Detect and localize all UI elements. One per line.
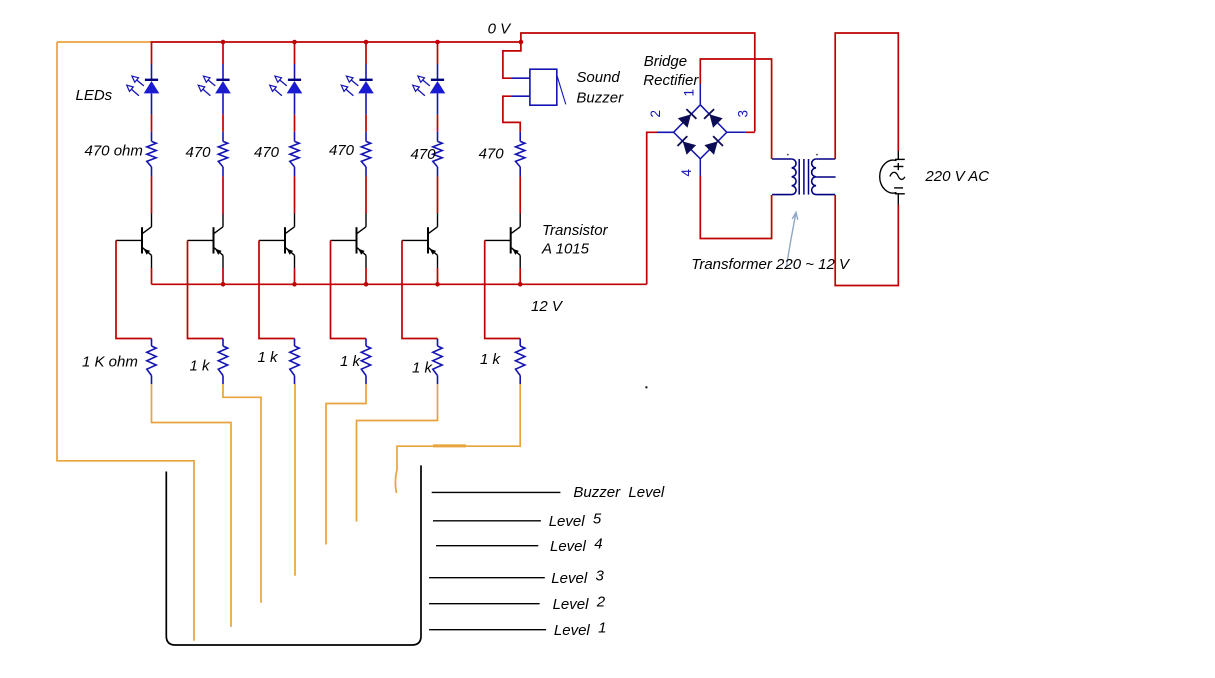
label 1 k R11 [412,360,434,377]
wire LED5 cathode [437,93,439,131]
wire LED2 anode red [222,42,224,64]
resistor R3 470 lead top [294,132,296,142]
wire probe level5 from R11 [357,384,438,522]
wire bridge node1 to transformer [700,59,771,159]
resistor R6 470 lead top [519,132,521,142]
label 1 k R9 [258,349,280,366]
svg-text:470 ohm: 470 ohm [85,143,143,160]
wire LED5 anode red [437,42,439,64]
wire Q2 base to R8 [188,240,224,338]
svg-text:1 k: 1 k [480,351,502,368]
label pin 1 [682,89,697,97]
resistor R8 1k [218,346,227,376]
svg-text:3: 3 [736,110,751,118]
transformer T1 220~12V [772,154,836,195]
resistor R2 470 lead top [222,132,224,142]
LED D4 [358,80,374,94]
level line Level level line [433,520,541,522]
resistor R5 470 lead bottom [437,167,439,177]
svg-text:Bridge: Bridge [644,53,687,70]
wire LED4 cathode [365,93,367,131]
wire transformer to AC source top [835,33,898,159]
wire AC source to transformer bottom [835,195,898,286]
svg-text:470: 470 [329,142,355,159]
label 1 k R12 [480,351,502,368]
svg-text:1 k: 1 k [412,360,434,377]
wire Q6 base to R12 [485,240,521,338]
transistor Q3 A1015 [259,214,295,269]
svg-text:470: 470 [254,144,280,161]
LED D3 emission arrows [270,76,287,96]
junction 12V rail col5 [435,282,440,287]
resistor R5 470 ohm [433,141,442,167]
LED D1 [144,80,160,94]
svg-text:470: 470 [186,144,212,161]
wire 12V to bridge node 2 [647,132,674,284]
resistor R1 470 lead top [151,132,153,142]
resistor R10 1k lead top [365,339,367,347]
label 220 V AC [924,168,989,185]
label LEDs [76,87,113,104]
svg-text:220 V AC: 220 V AC [924,168,989,185]
svg-text:Level 1: Level 1 [554,620,607,640]
svg-text:Sound: Sound [576,69,620,86]
svg-text:Transformer 220 ~ 12 V: Transformer 220 ~ 12 V [691,256,851,273]
wire Q2 emitter to 12V rail [222,268,224,284]
wire Q3 base to R9 [259,240,295,338]
LED D4 emission arrows [341,76,358,96]
resistor R11 1k [433,346,442,376]
svg-text:470: 470 [411,146,437,163]
resistor R1 470 ohm [147,141,156,167]
label 0V [488,21,513,38]
LED D5 emission arrows [413,76,430,96]
resistor R4 470 ohm [361,141,370,167]
resistor R7 1k lead top [151,339,153,347]
label 1 k R8 [190,358,212,375]
resistor R12 1k [516,346,525,376]
svg-text:A 1015: A 1015 [541,241,590,258]
transistor Q5 A1015 [402,214,438,269]
label Buzzer Level [573,484,665,501]
buzzer BZ1 [530,69,566,105]
label 470 R2 [186,144,212,161]
resistor R6 470 lead bottom [519,167,521,177]
svg-text:1 k: 1 k [340,353,362,370]
bridge pin node 1 [699,84,701,105]
junction 12V rail col6 [518,282,523,287]
wire R5 to Q5 collector [437,176,439,213]
label Transistor A 1015 [541,222,609,258]
resistor R3 470 lead bottom [294,167,296,177]
wire buzzer bottom lead [503,96,530,132]
wire probe level2 from R8 [223,384,261,603]
svg-text:Transistor: Transistor [542,222,609,239]
resistor R9 1k lead top [294,339,296,347]
label Level level line [549,511,602,531]
transistor Q1 A1015 [116,214,152,269]
label pin 4 [679,169,694,177]
transistor Q6 A1015 [485,214,521,269]
level line Level level line [429,629,546,631]
svg-text:Rectifier: Rectifier [643,72,699,89]
svg-text:Level 4: Level 4 [550,536,603,556]
LED D4 lead [365,64,367,79]
LED D1 lead [151,64,153,79]
LED D2 lead [222,64,224,79]
svg-text:1: 1 [682,89,697,97]
resistor R5 470 lead top [437,132,439,142]
svg-text:Buzzer Level: Buzzer Level [573,484,665,501]
wire R2 to Q2 collector [222,176,224,213]
LED D5 lead [437,64,439,79]
level line Buzzer Level [432,491,561,493]
LED D5 [430,80,446,94]
resistor R12 1k lead top [519,339,521,347]
wire R4 to Q4 collector [365,176,367,213]
label Sound Buzzer [576,69,624,107]
wire LED2 cathode [222,93,224,131]
wire LED3 cathode [294,93,296,131]
transistor Q4 A1015 [331,214,367,269]
svg-text:1 k: 1 k [258,349,280,366]
bridge diode D7 (3 to 1) [704,109,723,128]
resistor R8 1k lead bottom [222,376,224,385]
label 470 R5 [411,146,437,163]
label 470 ohm R1 [85,143,143,160]
svg-text:Level 5: Level 5 [549,511,602,531]
bridge diode D8 (4 to 2) [678,136,697,155]
label 470 R4 [329,142,355,159]
label 1 K ohm R7 [82,354,138,371]
label arrow to transformer [787,213,798,267]
level line Level level line [429,577,545,579]
resistor R7 1k lead bottom [151,376,153,385]
resistor R11 1k lead top [437,339,439,347]
svg-text:LEDs: LEDs [76,87,113,104]
resistor R10 1k lead bottom [365,376,367,385]
label 470 R3 [254,144,280,161]
LED D2 emission arrows [198,76,215,96]
level line Level level line [429,603,539,605]
svg-text:12 V: 12 V [531,298,564,315]
resistor R4 470 lead top [365,132,367,142]
wire Q1 base to R7 [116,240,152,338]
junction 12V rail col2 [221,282,226,287]
label pin 3 [736,110,751,118]
wire buzzer top lead [503,42,530,78]
wire Q4 emitter to 12V rail [365,268,367,284]
label Level level line [551,568,604,588]
junction 0V node [519,40,524,45]
wire Q4 base to R10 [331,240,367,338]
label Level level line [554,620,607,640]
wire R3 to Q3 collector [294,176,296,213]
svg-text:Level 2: Level 2 [553,594,606,614]
wire probe buzzer from R12 [395,384,520,493]
resistor R9 1k [290,346,299,376]
svg-text:Level 3: Level 3 [551,568,604,588]
wire LED3 anode red [294,42,296,64]
svg-text:1 k: 1 k [190,358,212,375]
svg-text:Buzzer: Buzzer [576,90,624,107]
label Transformer 220 ~ 12 V [691,256,851,273]
wire 0V extension to bridge [521,33,755,132]
label Bridge Rectifier [643,53,699,89]
transistor Q2 A1015 [188,214,224,269]
resistor R11 1k lead bottom [437,376,439,385]
junction 12V rail col4 [364,282,369,287]
resistor R7 1k [147,346,156,376]
LED D1 emission arrows [127,76,144,96]
wire Q5 emitter to 12V rail [437,268,439,284]
resistor R3 470 ohm [290,141,299,167]
wire Q1 emitter to 12V rail [151,268,153,284]
wire LED1 anode red [151,42,153,64]
label 1 k R10 [340,353,362,370]
bridge diode D9 (4 to 3) [704,136,723,155]
junction 0V rail col3 [292,40,297,45]
bridge pin node 4 [699,159,701,176]
level line Level level line [436,545,538,547]
tank [166,465,421,645]
bridge diamond [674,105,727,159]
junction 12V rail col3 [292,282,297,287]
wire 12V rail [152,283,647,285]
wire bridge node4 to transformer [700,176,771,239]
label Level level line [553,594,606,614]
resistor R10 1k [361,346,370,376]
bridge diode D6 (2 to 1) [678,109,697,128]
resistor R1 470 lead bottom [151,167,153,177]
svg-text:470: 470 [479,146,505,163]
wire R6 to Q6 collector [519,176,521,213]
wire Q6 emitter to 12V rail [519,268,521,284]
speck [645,386,647,388]
wire probe level3 from R9 [294,384,296,576]
resistor R8 1k lead top [222,339,224,347]
wire probe level4 from R10 [326,384,366,545]
junction 0V rail col2 [221,40,226,45]
resistor R2 470 lead bottom [222,167,224,177]
bridge pin node 3 [727,131,755,133]
label pin 2 [648,110,663,118]
LED D3 lead [294,64,296,79]
resistor R9 1k lead bottom [294,376,296,385]
wire 0V rail red [151,41,521,43]
wire probe level1 from R7 [152,384,232,627]
wire probe common 0V [57,42,194,641]
resistor R4 470 lead bottom [365,167,367,177]
LED D3 [287,80,303,94]
LED D2 [215,80,231,94]
wire R1 to Q1 collector [151,176,153,213]
wire Q3 emitter to 12V rail [294,268,296,284]
svg-text:1 K ohm: 1 K ohm [82,354,138,371]
svg-text:0 V: 0 V [488,21,513,38]
junction 0V rail col5 [435,40,440,45]
label Level level line [550,536,603,556]
resistor R6 470 ohm [516,141,525,167]
svg-text:4: 4 [679,169,694,177]
resistor R12 1k lead bottom [519,376,521,385]
wire LED4 anode red [365,42,367,64]
wire LED1 cathode [151,93,153,131]
label 470 R6 [479,146,505,163]
wire 0V orange segment top-left [57,41,152,43]
wire Q5 base to R11 [402,240,438,338]
label 12V [531,298,564,315]
junction 0V rail col4 [364,40,369,45]
AC source V1 [880,151,905,205]
svg-text:2: 2 [648,110,663,118]
resistor R2 470 ohm [218,141,227,167]
